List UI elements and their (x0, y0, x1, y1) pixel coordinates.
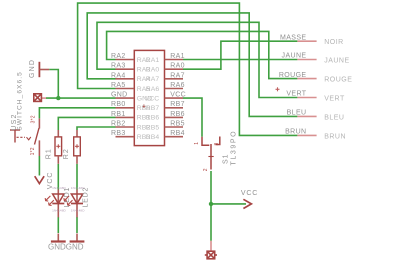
svg-text:RA3: RA3 (111, 63, 126, 70)
svg-text:JAUNE: JAUNE (324, 58, 349, 65)
svg-text:NOIR: NOIR (324, 39, 344, 46)
svg-text:RA4: RA4 (111, 72, 126, 79)
svg-text:RA5: RA5 (111, 82, 126, 89)
svg-text:1N4148D: 1N4148D (71, 208, 85, 212)
svg-text:RB5: RB5 (146, 124, 160, 131)
svg-text:3*2: 3*2 (31, 115, 37, 123)
svg-text:R2: R2 (63, 148, 70, 159)
svg-text:2: 2 (203, 168, 209, 171)
svg-text:VCC: VCC (145, 95, 160, 102)
svg-text:ROUGE: ROUGE (279, 72, 307, 79)
svg-text:S1: S1 (223, 153, 230, 164)
svg-text:RB7: RB7 (146, 105, 160, 112)
svg-text:3: 3 (214, 142, 220, 145)
svg-text:RA1: RA1 (170, 53, 185, 60)
svg-text:VCC: VCC (170, 92, 186, 99)
svg-text:RA7: RA7 (146, 76, 160, 83)
svg-text:GND: GND (29, 59, 36, 78)
svg-text:TL39PO: TL39PO (231, 130, 238, 166)
svg-text:JAUNE: JAUNE (282, 53, 307, 60)
svg-text:RA6: RA6 (146, 86, 160, 93)
svg-text:RB0: RB0 (111, 101, 126, 108)
svg-text:RA7: RA7 (170, 72, 185, 79)
svg-text:RB5: RB5 (170, 121, 185, 128)
svg-text:RA2: RA2 (111, 53, 126, 60)
svg-text:R1: R1 (45, 148, 52, 159)
svg-text:VERT: VERT (324, 96, 345, 103)
svg-text:MASSE: MASSE (280, 34, 307, 41)
svg-text:1N4148D: 1N4148D (52, 186, 66, 190)
svg-text:RB4: RB4 (146, 134, 160, 141)
svg-text:RB6: RB6 (170, 111, 185, 118)
svg-text:VERT: VERT (286, 91, 306, 98)
svg-text:RB1: RB1 (111, 111, 126, 118)
svg-text:SWITCH_6X6.5: SWITCH_6X6.5 (17, 71, 24, 130)
svg-text:RB7: RB7 (170, 101, 185, 108)
svg-text:RA6: RA6 (170, 82, 185, 89)
svg-text:BLEU: BLEU (324, 114, 344, 121)
svg-text:1N4148D: 1N4148D (52, 208, 66, 212)
svg-text:ROUGE: ROUGE (324, 77, 352, 84)
svg-text:GNDGND: GNDGND (48, 243, 84, 252)
svg-text:RB4: RB4 (170, 130, 185, 137)
svg-text:1*2: 1*2 (30, 147, 36, 155)
svg-text:BRUN: BRUN (285, 129, 306, 136)
svg-text:VCC: VCC (241, 190, 258, 197)
svg-text:RB2: RB2 (111, 121, 126, 128)
svg-text:RA0: RA0 (170, 63, 185, 70)
svg-text:1: 1 (194, 142, 200, 145)
svg-text:RA0: RA0 (146, 67, 160, 74)
svg-text:1N4148D: 1N4148D (71, 186, 85, 190)
svg-text:RA1: RA1 (146, 57, 160, 64)
svg-text:BRUN: BRUN (324, 133, 346, 140)
svg-text:RB3: RB3 (111, 130, 126, 137)
svg-text:BLEU: BLEU (287, 110, 307, 117)
svg-text:RB6: RB6 (146, 115, 160, 122)
svg-text:GND: GND (111, 92, 127, 99)
